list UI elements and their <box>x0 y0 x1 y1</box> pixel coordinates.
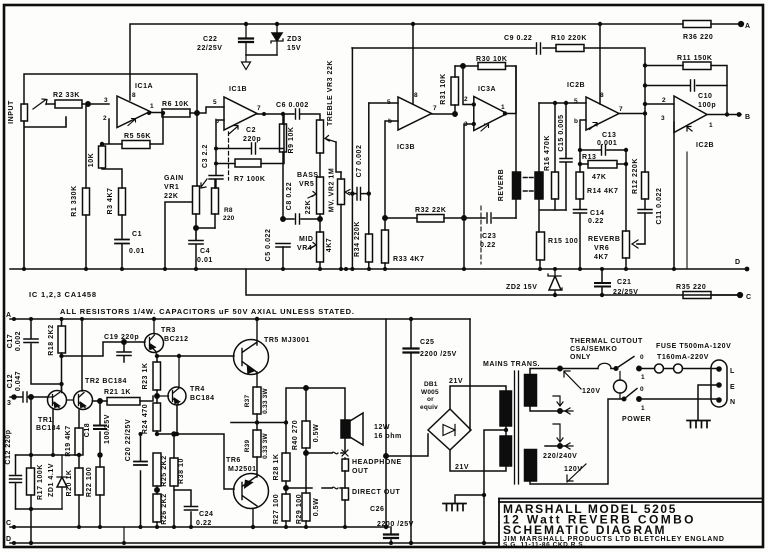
svg-text:C: C <box>6 520 12 527</box>
svg-text:0.22: 0.22 <box>196 520 212 527</box>
svg-text:0.5W: 0.5W <box>313 498 320 517</box>
wire IC3B pin6 column <box>382 121 399 269</box>
arrow selector 120V top <box>564 371 581 389</box>
resistor R8 <box>212 180 219 228</box>
wire to fuse <box>639 368 654 370</box>
node tap1 <box>558 409 562 413</box>
transistor TR4 <box>157 356 186 405</box>
resistor R27 <box>282 494 290 527</box>
svg-text:R33 4K7: R33 4K7 <box>393 256 424 263</box>
svg-text:7: 7 <box>433 105 437 112</box>
node C7 junction <box>339 191 371 271</box>
resistor R15 <box>537 232 545 269</box>
label DB1 <box>420 381 439 411</box>
svg-text:R36 220: R36 220 <box>683 34 713 41</box>
node C18 junction <box>98 399 102 403</box>
svg-text:MV. VR2 1M: MV. VR2 1M <box>329 168 336 213</box>
arrow IC2A offset <box>687 127 692 132</box>
wire IC2A mystery vertical <box>686 152 688 268</box>
capacitor C22 <box>239 24 253 55</box>
svg-text:THERMAL CUTOUT: THERMAL CUTOUT <box>570 338 643 345</box>
svg-text:R26 2K2: R26 2K2 <box>161 493 168 524</box>
wire IC2B pin8 <box>599 24 601 104</box>
svg-text:MJ2501: MJ2501 <box>228 466 257 473</box>
svg-text:C12: C12 <box>7 374 14 389</box>
svg-text:C10: C10 <box>698 93 713 100</box>
wire direct tap <box>286 487 342 489</box>
svg-text:equiv: equiv <box>420 404 438 411</box>
svg-text:2: 2 <box>103 115 107 122</box>
capacitor C7 <box>352 188 368 201</box>
svg-text:ZD3: ZD3 <box>287 36 302 43</box>
svg-text:1: 1 <box>641 405 645 412</box>
svg-text:R3 4K7: R3 4K7 <box>107 187 114 214</box>
pin labels IC3B <box>387 92 437 125</box>
capacitor C2 <box>252 143 256 154</box>
svg-text:D: D <box>735 259 741 266</box>
svg-text:GAIN: GAIN <box>164 175 184 182</box>
capacitor C12 <box>10 392 47 402</box>
svg-text:ONLY: ONLY <box>570 354 591 361</box>
resistor R5 <box>122 141 150 149</box>
resistor R35 <box>683 292 740 299</box>
svg-text:22/25V: 22/25V <box>613 289 639 296</box>
svg-text:R31 10K: R31 10K <box>440 73 447 104</box>
pin labels IC3A <box>464 96 505 128</box>
wire to N pin <box>639 398 719 400</box>
resistor R36 <box>683 21 711 28</box>
transistor TR3 <box>145 319 164 356</box>
capacitor C8 <box>283 214 320 224</box>
svg-text:R39: R39 <box>244 440 251 453</box>
svg-text:VR4: VR4 <box>297 245 312 252</box>
svg-text:5: 5 <box>387 99 391 106</box>
svg-text:R12 220K: R12 220K <box>632 158 639 194</box>
svg-text:OUT: OUT <box>352 468 369 475</box>
node y434 dots <box>139 432 180 436</box>
svg-text:16 ohm: 16 ohm <box>374 433 402 440</box>
svg-text:DB1: DB1 <box>424 381 438 388</box>
transformer primary winding bottom <box>525 450 537 482</box>
svg-text:21V: 21V <box>449 378 463 385</box>
svg-text:2: 2 <box>662 97 666 104</box>
wire IC3A pin3 <box>464 124 474 269</box>
ground symbol earth <box>687 421 710 428</box>
reverb transformer coil 2 <box>535 103 543 232</box>
svg-text:C19 220p: C19 220p <box>104 334 139 341</box>
node R6 junction <box>195 111 199 115</box>
node VR1 wiper <box>194 226 198 230</box>
potentiometer VR5 bass <box>308 177 324 232</box>
svg-text:T160mA-220V: T160mA-220V <box>657 354 709 361</box>
capacitor C17 <box>24 319 61 384</box>
svg-text:R20 1K: R20 1K <box>66 469 73 496</box>
wire to IC3B pin5 <box>369 102 398 104</box>
svg-text:C14: C14 <box>590 210 605 217</box>
svg-text:3: 3 <box>7 400 11 407</box>
svg-text:22/25V: 22/25V <box>197 45 223 52</box>
svg-text:SCHEMATIC DIAGRAM: SCHEMATIC DIAGRAM <box>503 523 666 537</box>
resistor R22 <box>96 453 104 527</box>
node R31 bottom junction <box>453 112 457 116</box>
arrow tap1 plugs <box>553 396 573 414</box>
svg-text:8: 8 <box>414 92 418 99</box>
svg-text:ZD1 4.1V: ZD1 4.1V <box>48 463 55 497</box>
resistor R13 <box>580 161 626 169</box>
node ZD2/C21 dots <box>553 267 604 297</box>
svg-text:C25: C25 <box>420 339 435 346</box>
svg-text:b: b <box>574 118 578 125</box>
svg-text:C13: C13 <box>602 132 617 139</box>
svg-text:120V: 120V <box>564 466 583 473</box>
zener ZD1 <box>57 455 67 509</box>
node A terminal <box>739 22 744 27</box>
node loop dot <box>304 386 308 390</box>
reverb transformer core dashes <box>524 178 534 192</box>
svg-text:R7 100K: R7 100K <box>234 176 265 183</box>
svg-text:220/240V: 220/240V <box>543 453 577 460</box>
node R28 junction <box>284 486 288 490</box>
resistor R37 <box>253 387 261 422</box>
node output dots <box>255 420 288 424</box>
speaker LS1 <box>341 413 363 445</box>
op-amp IC1B <box>224 97 257 130</box>
node R31 top junction <box>461 64 465 68</box>
transistor TR5 <box>234 319 269 387</box>
switch pole2 <box>622 389 641 402</box>
resistor R30 <box>478 63 506 70</box>
svg-text:R21 1K: R21 1K <box>104 389 131 396</box>
resistor R4 10K <box>99 146 123 188</box>
wire primary tap1 <box>530 406 567 411</box>
pin labels IC1B <box>213 99 261 125</box>
svg-text:R30 10K: R30 10K <box>476 56 507 63</box>
svg-text:IC2B: IC2B <box>567 82 585 89</box>
node C13 left junctions <box>578 148 628 166</box>
svg-text:IC 1,2,3 CA1458: IC 1,2,3 CA1458 <box>29 290 97 299</box>
transistor TR2 <box>67 319 93 410</box>
label switch positions <box>640 354 645 412</box>
wire DB1 plus column <box>469 319 471 430</box>
svg-text:TR3: TR3 <box>161 327 176 334</box>
pin labels IC1A <box>103 92 154 122</box>
zener ZD3 <box>271 24 283 55</box>
op-amp IC2B <box>586 97 619 130</box>
node bias row dots <box>29 453 81 511</box>
svg-text:C11 0.022: C11 0.022 <box>656 188 663 225</box>
svg-text:R8: R8 <box>224 207 233 214</box>
wire speaker loop <box>286 388 345 423</box>
transformer core <box>515 371 519 484</box>
svg-text:S.G. 11-11-86 CKD R.S.: S.G. 11-11-86 CKD R.S. <box>503 542 586 549</box>
ground symbol PSU <box>443 504 466 511</box>
svg-text:C22: C22 <box>203 36 218 43</box>
input jack J1 <box>21 99 66 269</box>
wire A supply rail <box>10 318 470 320</box>
svg-text:0.22: 0.22 <box>480 242 496 249</box>
resistor R16 <box>552 103 559 210</box>
svg-text:REVERB: REVERB <box>588 236 620 243</box>
svg-text:BC184: BC184 <box>190 395 215 402</box>
node IC2A out dots <box>725 112 742 117</box>
svg-text:VR6: VR6 <box>594 245 609 252</box>
node input 3 <box>12 395 16 399</box>
svg-text:C18: C18 <box>84 423 91 438</box>
wire primary tap2 <box>545 445 567 447</box>
svg-text:TREBLE VR3 22K: TREBLE VR3 22K <box>327 60 334 126</box>
wire send bus y48 <box>352 48 645 114</box>
svg-text:N: N <box>730 399 736 406</box>
wire center tap <box>484 426 506 495</box>
wire IC2B out to R12 <box>619 113 645 115</box>
capacitor C23 <box>464 213 516 223</box>
svg-text:4K7: 4K7 <box>326 238 333 253</box>
svg-text:R6 10K: R6 10K <box>162 101 189 108</box>
svg-text:R35 220: R35 220 <box>676 284 706 291</box>
node C19 junction <box>122 340 126 344</box>
lamp power <box>614 372 627 400</box>
resistor R1 <box>83 106 90 269</box>
svg-text:TR5 MJ3001: TR5 MJ3001 <box>264 337 310 344</box>
node D rail dots <box>12 541 486 545</box>
node IC1B out dots <box>262 112 285 116</box>
wire IC2A out node B <box>707 114 741 116</box>
resistor R18 <box>58 319 66 390</box>
svg-text:0.047: 0.047 <box>15 371 22 391</box>
svg-text:5: 5 <box>574 98 578 105</box>
svg-text:C1: C1 <box>132 231 142 238</box>
svg-text:ZD2 15V: ZD2 15V <box>506 284 537 291</box>
op-amp IC1A <box>117 96 150 128</box>
svg-text:ALL RESISTORS 1/4W. CAPACITORS: ALL RESISTORS 1/4W. CAPACITORS uF 50V AX… <box>60 307 355 316</box>
svg-text:C20 22/25V: C20 22/25V <box>125 419 132 461</box>
wire TR4 emitter to TR6 base <box>157 405 234 489</box>
capacitor C10 <box>645 80 727 91</box>
svg-text:1: 1 <box>501 104 505 111</box>
svg-text:100/25V: 100/25V <box>104 414 111 444</box>
capacitor C6 <box>296 109 321 120</box>
node R40 bottom <box>304 451 308 455</box>
wire IC2B pin6 column <box>580 120 586 172</box>
svg-text:MAINS TRANS.: MAINS TRANS. <box>483 361 540 368</box>
potentiometer VR4 mid <box>308 232 324 269</box>
resistor R31 <box>451 66 459 114</box>
svg-text:TR2 BC184: TR2 BC184 <box>85 378 127 385</box>
resistor R14 <box>576 172 584 199</box>
wire IC1A out <box>150 112 162 114</box>
switch pole1 <box>614 357 641 371</box>
resistor R20 <box>75 455 83 527</box>
resistor R7 <box>235 159 261 167</box>
svg-text:R37: R37 <box>244 395 251 408</box>
svg-text:47K: 47K <box>592 174 607 181</box>
node R25 junction <box>155 488 159 492</box>
svg-text:R13: R13 <box>582 154 597 161</box>
pin labels IC2B <box>574 92 623 125</box>
resistor R38 <box>170 432 178 527</box>
svg-text:R17 100K: R17 100K <box>37 464 44 500</box>
svg-text:D: D <box>6 536 12 543</box>
wire IC2A pin2 <box>645 103 674 105</box>
capacitor C3 <box>209 164 223 189</box>
fuse F1 <box>655 364 720 373</box>
transformer secondary winding top <box>500 391 512 426</box>
svg-text:R23 1K: R23 1K <box>142 362 149 389</box>
resistor R28 <box>282 422 290 494</box>
wire primary top lead <box>530 369 616 375</box>
resistor R19 <box>75 410 83 455</box>
svg-text:INPUT: INPUT <box>8 100 15 124</box>
capacitor C15 <box>560 103 572 210</box>
svg-text:R25 2K2: R25 2K2 <box>161 455 168 486</box>
resistor R2 <box>46 100 109 108</box>
svg-text:IC3B: IC3B <box>397 144 415 151</box>
svg-text:1: 1 <box>709 122 713 129</box>
svg-text:21V: 21V <box>455 464 469 471</box>
svg-text:DIRECT OUT: DIRECT OUT <box>352 489 400 496</box>
svg-text:C7 0.002: C7 0.002 <box>356 145 363 178</box>
wire top supply rail <box>130 24 741 100</box>
wire bias row 455 <box>16 455 80 509</box>
svg-text:100p: 100p <box>698 102 716 109</box>
svg-text:IC2B: IC2B <box>696 142 714 149</box>
capacitor C26 <box>384 527 398 543</box>
svg-text:IC3A: IC3A <box>478 86 496 93</box>
node ground rail dots <box>22 267 749 272</box>
wire C22-ZD3 bottom <box>246 54 277 56</box>
pin labels IC2A <box>661 97 713 129</box>
svg-text:C5 0.022: C5 0.022 <box>265 229 272 262</box>
wire aux D column <box>123 527 125 543</box>
svg-text:7: 7 <box>619 106 623 113</box>
svg-text:0.22: 0.22 <box>588 218 604 225</box>
resistor R12 <box>642 114 649 200</box>
svg-text:R28 1K: R28 1K <box>273 453 280 480</box>
svg-text:R18 2K2: R18 2K2 <box>48 324 55 355</box>
resistor R39 <box>253 422 261 474</box>
wire R6 to IC1B <box>190 107 224 113</box>
svg-text:C2: C2 <box>246 127 256 134</box>
node R9/C8 junction <box>281 217 285 221</box>
svg-text:2: 2 <box>464 96 468 103</box>
node bass bottom C8 <box>318 217 322 221</box>
svg-text:R19 4K7: R19 4K7 <box>65 425 72 456</box>
resistor R26 <box>153 494 161 527</box>
svg-text:C9 0.22: C9 0.22 <box>504 35 532 42</box>
svg-text:R15 100: R15 100 <box>548 238 578 245</box>
wire PSU left column <box>385 319 387 527</box>
capacitor C1 <box>115 240 129 270</box>
resistor R11 <box>645 62 727 115</box>
svg-text:C12 220p: C12 220p <box>5 429 12 464</box>
op-amp IC3B <box>398 97 432 130</box>
svg-text:220: 220 <box>223 215 235 222</box>
node IC1A out junction <box>100 111 165 146</box>
svg-text:MID: MID <box>299 236 313 243</box>
capacitor C13b 220p <box>10 455 22 509</box>
wire VR6 top column <box>625 150 627 231</box>
wire C rail <box>10 526 389 528</box>
resistor R34 <box>366 103 373 269</box>
resistor R32 <box>385 215 464 223</box>
capacitor C24 <box>174 490 198 527</box>
transistor TR1 <box>47 384 67 410</box>
node IC3A pin connections <box>472 102 508 126</box>
shield dashed line <box>480 206 482 264</box>
wire psu ground stem <box>455 495 484 543</box>
svg-text:REVERB: REVERB <box>498 169 505 201</box>
capacitor C21 <box>595 269 610 295</box>
svg-text:IC1A: IC1A <box>135 83 153 90</box>
zener ZD2 <box>548 269 562 295</box>
svg-text:0: 0 <box>640 354 644 361</box>
node R32 right junction <box>462 216 466 220</box>
svg-text:BC212: BC212 <box>164 336 189 343</box>
wire R18 to TR3 base <box>62 342 146 356</box>
jack direct <box>342 488 349 527</box>
capacitor C19 <box>117 342 131 362</box>
transistor TR6 <box>234 474 269 528</box>
svg-text:C23: C23 <box>482 233 497 240</box>
svg-text:VR1: VR1 <box>164 184 179 191</box>
node tap2 <box>558 444 562 448</box>
svg-text:R10 220K: R10 220K <box>551 35 587 42</box>
svg-text:TR4: TR4 <box>190 386 205 393</box>
op-amp IC2A <box>674 96 707 133</box>
node mains selector top <box>558 366 562 370</box>
arrow tap2 plugs <box>553 424 573 449</box>
resistor R9 <box>280 114 287 218</box>
svg-text:C24: C24 <box>199 511 214 518</box>
resistor R6 <box>162 109 190 117</box>
resistor R25 <box>153 453 161 494</box>
potentiometer VR2 master volume <box>338 48 353 269</box>
svg-text:15V: 15V <box>287 45 301 52</box>
svg-text:R1 330K: R1 330K <box>71 185 78 216</box>
svg-text:5: 5 <box>213 99 217 106</box>
svg-text:R29 100: R29 100 <box>296 494 303 524</box>
svg-text:A: A <box>745 23 751 30</box>
resistor R29 <box>302 453 310 527</box>
svg-text:0.001: 0.001 <box>597 140 617 147</box>
svg-text:R38 10: R38 10 <box>178 458 185 484</box>
wire IC1A pin2 feedback <box>102 113 163 144</box>
capacitor C14 <box>574 199 587 269</box>
svg-text:10K: 10K <box>88 153 95 168</box>
resistor R21 <box>93 396 154 405</box>
svg-text:R40 270: R40 270 <box>292 420 299 450</box>
reverb transformer coil 1 <box>513 172 521 199</box>
node C rail dots <box>12 525 388 529</box>
svg-text:0.01: 0.01 <box>197 257 213 264</box>
wire reverb recovery bus <box>539 102 586 104</box>
svg-text:L: L <box>730 368 735 375</box>
svg-text:C8 0.22: C8 0.22 <box>286 182 293 210</box>
svg-text:4K7: 4K7 <box>594 254 609 261</box>
svg-text:R34 220K: R34 220K <box>354 221 361 257</box>
thermal cutout symbol <box>598 363 611 368</box>
title block frame <box>499 499 763 548</box>
svg-text:C4: C4 <box>200 248 210 255</box>
capacitor C11 <box>637 199 652 244</box>
svg-text:BASS: BASS <box>297 172 319 179</box>
svg-text:E: E <box>730 384 735 391</box>
resistor R24 <box>153 396 161 434</box>
node A rail dots <box>12 317 413 321</box>
label R8 <box>223 207 235 222</box>
transformer secondary winding bottom <box>500 436 512 466</box>
wire C supply rail <box>246 269 740 295</box>
